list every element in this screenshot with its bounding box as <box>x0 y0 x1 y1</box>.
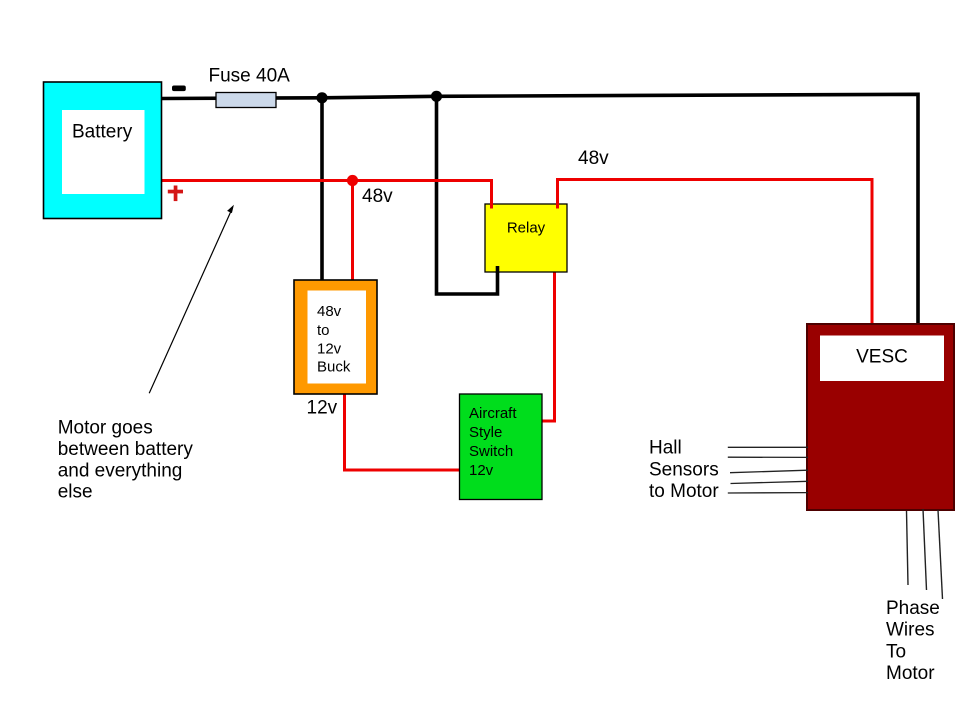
svg-text:Battery: Battery <box>72 122 133 143</box>
hall sensor wires to motor (5) <box>728 447 808 493</box>
svg-text:Sensors: Sensors <box>649 459 719 480</box>
annotation arrow to positive wire <box>149 205 234 394</box>
svg-text:VESC: VESC <box>856 347 908 368</box>
wire: negative branch to relay coil <box>437 96 498 294</box>
phase wires to motor (3) <box>907 509 943 599</box>
wire: relay output to switch <box>542 271 555 421</box>
relay pin stub: positive in <box>490 203 493 209</box>
svg-text:12v: 12v <box>307 397 338 418</box>
svg-text:Phase: Phase <box>886 598 940 619</box>
label: Phase Wires To Motor <box>886 598 940 684</box>
label: Hall Sensors to Motor <box>649 438 719 503</box>
VESC motor controller <box>807 324 954 510</box>
battery positive terminal marker <box>168 186 183 202</box>
wire: positive drop to buck converter <box>351 181 354 282</box>
annotation text: motor note <box>58 418 194 503</box>
svg-text:to Motor: to Motor <box>649 481 719 502</box>
svg-text:Switch: Switch <box>469 443 513 460</box>
relay K1 <box>485 204 567 272</box>
svg-text:12v: 12v <box>317 341 342 358</box>
wire: negative drop to buck converter <box>320 98 324 281</box>
junction node: negative bus / relay branch <box>431 91 442 102</box>
wire: buck 12v output to switch <box>345 394 460 470</box>
svg-text:To: To <box>886 641 906 662</box>
wire: negative bus from battery to VESC <box>161 94 918 325</box>
wire: positive bus battery to relay <box>161 181 492 209</box>
svg-text:Relay: Relay <box>507 220 546 237</box>
junction node: positive bus 48v <box>347 175 358 186</box>
svg-text:Hall: Hall <box>649 438 682 459</box>
svg-text:48v: 48v <box>578 148 609 169</box>
battery B1 <box>44 82 162 219</box>
svg-text:Wires: Wires <box>886 620 935 641</box>
fuse F1 <box>216 93 276 108</box>
svg-text:Aircraft: Aircraft <box>469 405 517 422</box>
svg-text:Buck: Buck <box>317 359 351 376</box>
switch S1 aircraft style <box>460 394 543 500</box>
relay pin stub: coil negative <box>496 266 500 273</box>
svg-text:Style: Style <box>469 424 502 441</box>
svg-text:to: to <box>317 322 330 339</box>
svg-text:Fuse 40A: Fuse 40A <box>209 66 291 87</box>
svg-text:between battery: between battery <box>58 439 194 460</box>
wire: positive 48v relay to VESC <box>558 180 873 326</box>
svg-text:12v: 12v <box>469 462 494 479</box>
battery negative terminal marker <box>172 86 186 92</box>
buck converter U1 48v to 12v <box>294 280 377 394</box>
svg-text:else: else <box>58 482 93 503</box>
svg-text:and everything: and everything <box>58 460 183 481</box>
junction node: negative bus / buck drop <box>316 92 327 103</box>
relay pin stub: positive out <box>556 203 559 209</box>
svg-text:48v: 48v <box>362 186 393 207</box>
svg-text:Motor: Motor <box>886 663 935 684</box>
svg-text:Motor goes: Motor goes <box>58 418 153 439</box>
svg-text:48v: 48v <box>317 303 342 320</box>
